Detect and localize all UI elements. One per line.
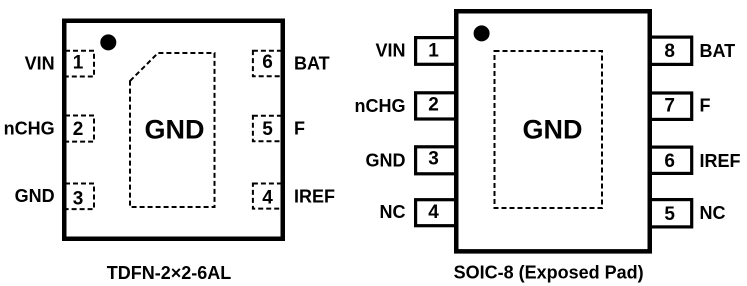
lead pin 8 (SOIC) (650, 37, 692, 64)
pin number 5 (TDFN) (262, 119, 273, 140)
net label NC (SOIC pin 4) (380, 202, 406, 222)
net label GND (SOIC pin 3) (366, 151, 406, 171)
svg-text:NC: NC (380, 202, 406, 222)
pad pin 2 (TDFN) (65, 116, 94, 142)
svg-text:6: 6 (262, 52, 273, 73)
svg-text:1: 1 (73, 53, 84, 74)
svg-text:3: 3 (428, 148, 439, 169)
GND pad label (TDFN) (145, 115, 205, 145)
pad pin 4 (TDFN) (253, 184, 282, 209)
net label GND (TDFN pin 3) (15, 186, 55, 206)
pin number 6 (SOIC) (664, 151, 675, 172)
pin number 4 (SOIC) (428, 202, 439, 223)
pad pin 5 (TDFN) (253, 116, 282, 141)
pin number 1 (SOIC) (428, 41, 439, 62)
svg-text:1: 1 (428, 41, 439, 62)
pin number 8 (SOIC) (664, 41, 675, 62)
net label nCHG (TDFN pin 2) (4, 118, 55, 138)
svg-text:2: 2 (428, 95, 439, 116)
svg-text:5: 5 (664, 204, 675, 225)
svg-text:IREF: IREF (294, 186, 335, 206)
svg-text:6: 6 (664, 151, 675, 172)
svg-text:GND: GND (366, 151, 406, 171)
net label IREF (SOIC pin 6) (700, 151, 741, 171)
pin number 2 (TDFN) (73, 119, 84, 140)
pin number 6 (TDFN) (262, 52, 273, 73)
svg-text:4: 4 (428, 202, 439, 223)
svg-text:TDFN-2×2-6AL: TDFN-2×2-6AL (107, 263, 232, 283)
svg-text:4: 4 (262, 188, 273, 209)
net label nCHG (SOIC pin 2) (355, 96, 406, 116)
net label F (TDFN pin 5) (294, 119, 305, 139)
lead pin 5 (SOIC) (650, 200, 692, 227)
GND pad label (SOIC) (523, 115, 583, 145)
svg-text:GND: GND (523, 115, 583, 145)
svg-text:NC: NC (700, 203, 726, 223)
svg-text:BAT: BAT (700, 41, 736, 61)
svg-text:nCHG: nCHG (4, 118, 55, 138)
pad pin 1 (TDFN) (65, 51, 94, 77)
exposed pad GND (TDFN, dashed, chamfered) (130, 53, 215, 207)
package body U2 SOIC-8 (456, 11, 650, 251)
svg-text:VIN: VIN (375, 41, 405, 61)
svg-text:IREF: IREF (700, 151, 741, 171)
svg-text:F: F (700, 96, 711, 116)
exposed pad GND (SOIC, dashed) (495, 51, 603, 208)
pin number 7 (SOIC) (664, 95, 675, 116)
pin-1 marker dot (SOIC) (474, 25, 490, 41)
caption TDFN-2x2-6AL (107, 263, 232, 283)
lead pin 2 (SOIC) (416, 93, 457, 119)
net label IREF (TDFN pin 4) (294, 186, 335, 206)
svg-text:VIN: VIN (25, 53, 55, 73)
pin number 2 (SOIC) (428, 95, 439, 116)
pin number 3 (TDFN) (73, 189, 84, 210)
svg-text:F: F (294, 119, 305, 139)
net label NC (SOIC pin 5) (700, 203, 726, 223)
net label BAT (TDFN pin 6) (294, 53, 330, 73)
pad pin 3 (TDFN) (65, 184, 94, 210)
svg-text:5: 5 (262, 119, 273, 140)
svg-text:GND: GND (15, 186, 55, 206)
svg-text:3: 3 (73, 189, 84, 210)
lead pin 3 (SOIC) (416, 147, 457, 174)
svg-text:8: 8 (664, 41, 675, 62)
svg-text:7: 7 (664, 95, 675, 116)
lead pin 6 (SOIC) (650, 147, 692, 173)
caption SOIC-8 (Exposed Pad) (454, 263, 644, 283)
pin-1 marker dot (TDFN) (100, 34, 116, 50)
net label VIN (SOIC pin 1) (375, 41, 405, 61)
svg-text:SOIC-8 (Exposed Pad): SOIC-8 (Exposed Pad) (454, 263, 644, 283)
svg-text:GND: GND (145, 115, 205, 145)
net label VIN (TDFN pin 1) (25, 53, 55, 73)
pin number 1 (TDFN) (73, 53, 84, 74)
net label F (SOIC pin 7) (700, 96, 711, 116)
svg-text:2: 2 (73, 119, 84, 140)
lead pin 4 (SOIC) (416, 200, 457, 226)
pin number 4 (TDFN) (262, 188, 273, 209)
net label BAT (SOIC pin 8) (700, 41, 736, 61)
pin number 3 (SOIC) (428, 148, 439, 169)
svg-text:nCHG: nCHG (355, 96, 406, 116)
lead pin 7 (SOIC) (650, 93, 692, 119)
svg-text:BAT: BAT (294, 53, 330, 73)
pin number 5 (SOIC) (664, 204, 675, 225)
lead pin 1 (SOIC) (416, 38, 457, 65)
package body U1 TDFN-2x2-6AL (64, 21, 283, 239)
pad pin 6 (TDFN) (253, 51, 282, 77)
